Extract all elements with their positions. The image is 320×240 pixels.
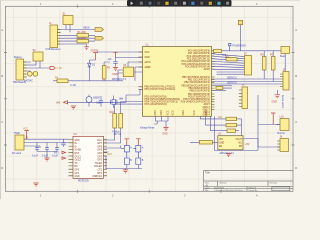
resistor R9 bbox=[190, 141, 218, 145]
svg-text:RTS: RTS bbox=[97, 173, 102, 175]
svg-text:VIN: VIN bbox=[56, 102, 60, 105]
wire reg-in bbox=[104, 58, 142, 81]
svg-text:CTS: CTS bbox=[97, 170, 102, 172]
svg-text:Revision: Revision bbox=[270, 182, 278, 184]
svg-text:MIC5219-3.3: MIC5219-3.3 bbox=[112, 78, 126, 81]
diode D2 bbox=[88, 60, 96, 81]
wires MCU to J5 bbox=[212, 53, 245, 74]
svg-text:R1 22R: R1 22R bbox=[78, 31, 86, 34]
svg-text:POWER5V0: POWER5V0 bbox=[233, 45, 247, 48]
svg-text:PB6 (PCINT6/XTAL1/TOSC1): PB6 (PCINT6/XTAL1/TOSC1) bbox=[145, 86, 176, 89]
svg-text:A: A bbox=[1, 28, 3, 32]
port P1 bbox=[95, 28, 104, 32]
wire XTAL2 bbox=[115, 103, 143, 105]
wire D+ bbox=[61, 37, 96, 39]
wire 5V loop bbox=[215, 139, 259, 151]
ground J6 bbox=[272, 90, 281, 104]
svg-text:RST: RST bbox=[75, 153, 80, 155]
wire AVCC bbox=[97, 51, 143, 53]
frame zone numbers bbox=[1, 2, 297, 198]
ground bottom-left bbox=[33, 183, 38, 186]
net label 1M1 bbox=[107, 153, 112, 156]
resistor R3 bbox=[102, 62, 110, 81]
MCU U1 bbox=[139, 43, 215, 116]
ground near C7 bbox=[112, 68, 118, 76]
connector J7 bbox=[239, 84, 248, 108]
wire vcc rail bbox=[24, 139, 69, 148]
resistor R10 bbox=[104, 104, 117, 140]
wires MCU to J6 bbox=[212, 79, 281, 84]
connector J8 bbox=[277, 136, 289, 152]
transistor Q1 bbox=[121, 145, 133, 152]
crystal Y1 bbox=[63, 13, 74, 33]
svg-text:PD6 (AIN0/OC0A/PCINT22): PD6 (AIN0/OC0A/PCINT22) bbox=[181, 101, 210, 104]
connector J6 bbox=[280, 69, 289, 109]
svg-text:GP0: GP0 bbox=[75, 170, 80, 172]
off-sheet port PWR bbox=[50, 67, 62, 70]
svg-text:ADC7: ADC7 bbox=[204, 103, 211, 106]
regulator U3 bbox=[218, 133, 243, 155]
capacitor C4 bbox=[61, 139, 65, 147]
svg-text:Voltage Meas: Voltage Meas bbox=[140, 127, 155, 130]
resistor R4 bbox=[55, 76, 76, 87]
svg-text:R10: R10 bbox=[110, 111, 115, 114]
resistor R2 bbox=[61, 37, 96, 43]
wire D- bbox=[61, 34, 78, 36]
svg-text:VCC: VCC bbox=[173, 110, 175, 115]
diode D3 bbox=[27, 71, 33, 76]
svg-text:VIN: VIN bbox=[219, 139, 223, 141]
svg-text:GP4: GP4 bbox=[97, 153, 102, 155]
svg-text:Servo select: Servo select bbox=[281, 95, 284, 108]
ground opto bus bbox=[123, 169, 128, 173]
svg-text:+5V: +5V bbox=[245, 143, 250, 146]
svg-text:R2 22R: R2 22R bbox=[78, 37, 86, 40]
svg-text:PC3 (ADC3/PCINT11): PC3 (ADC3/PCINT11) bbox=[187, 58, 210, 61]
wire XTAL1 bbox=[96, 102, 143, 105]
svg-text:PC2 (ADC2/PCINT10): PC2 (ADC2/PCINT10) bbox=[187, 55, 210, 58]
svg-text:S8050: S8050 bbox=[93, 97, 101, 100]
svg-text:VUSB: VUSB bbox=[75, 150, 82, 152]
svg-text:GP7: GP7 bbox=[97, 143, 102, 145]
svg-text:RX: RX bbox=[75, 166, 79, 168]
svg-text:C: C bbox=[295, 120, 297, 124]
ground U3 bbox=[226, 154, 231, 157]
canvas top edge bbox=[0, 0, 300, 1]
port P2 bbox=[95, 36, 104, 40]
transistor Q4 bbox=[136, 152, 144, 165]
svg-text:0.1uF: 0.1uF bbox=[42, 155, 49, 158]
svg-text:C-06: C-06 bbox=[57, 67, 63, 70]
svg-text:Number: Number bbox=[220, 182, 227, 184]
power flag buzzer bbox=[271, 113, 275, 125]
svg-text:MCP2200: MCP2200 bbox=[78, 179, 89, 182]
svg-text:OSC2: OSC2 bbox=[75, 160, 82, 162]
svg-text:EN: EN bbox=[219, 146, 223, 148]
svg-text:AREF: AREF bbox=[145, 66, 152, 69]
svg-text:VOUT: VOUT bbox=[235, 139, 242, 141]
resistor R15 bbox=[215, 86, 233, 91]
diode D4 bbox=[24, 71, 38, 82]
sheet background bbox=[0, 0, 300, 199]
svg-text:C:\Users\sch\Mainboard.SchDoc: C:\Users\sch\Mainboard.SchDoc bbox=[214, 190, 243, 192]
svg-text:VCC: VCC bbox=[23, 128, 28, 131]
svg-text:C-1R: C-1R bbox=[70, 84, 76, 87]
svg-text:VCC: VCC bbox=[194, 110, 196, 115]
svg-text:C: C bbox=[1, 120, 3, 124]
svg-text:File:: File: bbox=[205, 190, 209, 192]
capacitor C7 bbox=[108, 58, 118, 67]
svg-text:VCC: VCC bbox=[145, 52, 150, 54]
svg-text:PD7 (AIN1/PCINT23): PD7 (AIN1/PCINT23) bbox=[145, 103, 167, 106]
net label SERVO2 bbox=[227, 81, 237, 84]
svg-text:NC: NC bbox=[238, 142, 242, 144]
power port VCC jack bbox=[23, 128, 29, 140]
svg-text:PC4 (ADC4/SDA/PCINT12): PC4 (ADC4/SDA/PCINT12) bbox=[181, 60, 210, 63]
svg-text:VBUS: VBUS bbox=[83, 27, 90, 30]
switch S2 bbox=[33, 49, 44, 68]
svg-text:GND: GND bbox=[272, 101, 278, 104]
svg-text:PWR: PWR bbox=[14, 132, 20, 135]
resistor R14 bbox=[227, 129, 239, 132]
power flag VBUS2 bbox=[113, 52, 117, 57]
svg-text:PB2 (SS/OC1B/PCINT2): PB2 (SS/OC1B/PCINT2) bbox=[184, 82, 210, 84]
svg-text:PC0 (ADC0/PCINT8): PC0 (ADC0/PCINT8) bbox=[188, 50, 210, 53]
svg-text:1uF: 1uF bbox=[108, 58, 113, 61]
wire VBUS bbox=[61, 27, 96, 30]
svg-text:VCC: VCC bbox=[168, 110, 170, 115]
svg-text:GND: GND bbox=[206, 110, 208, 115]
ground MCU bbox=[162, 128, 168, 136]
capacitor C3 bbox=[52, 143, 59, 158]
svg-text:A: A bbox=[295, 28, 297, 32]
title block bbox=[204, 171, 294, 192]
wire sense bbox=[68, 101, 127, 103]
svg-text:BAT54C: BAT54C bbox=[24, 79, 33, 82]
svg-text:1M1: 1M1 bbox=[107, 153, 112, 156]
net label Voltage Meas bbox=[126, 89, 157, 129]
svg-text:PC5 (ADC5/SCL/PCINT13): PC5 (ADC5/SCL/PCINT13) bbox=[181, 63, 210, 66]
fuse F1 bbox=[212, 49, 282, 52]
resistor R5 bbox=[226, 55, 238, 61]
svg-text:TX: TX bbox=[75, 163, 78, 165]
svg-text:B: B bbox=[1, 74, 3, 78]
power flag F2 bbox=[238, 20, 242, 51]
connector J5 bbox=[244, 53, 252, 75]
resistor R1 bbox=[77, 31, 95, 37]
svg-text:OSC1: OSC1 bbox=[75, 156, 82, 158]
capacitor C2 bbox=[42, 143, 49, 158]
svg-text:5V0: 5V0 bbox=[222, 54, 227, 57]
toolbar overlay bbox=[127, 0, 232, 7]
svg-text:AVCC: AVCC bbox=[145, 61, 152, 64]
power port VDD33 bbox=[91, 50, 99, 60]
power socket symbol PWR5V bbox=[229, 43, 247, 50]
capacitor C5 bbox=[99, 96, 103, 107]
svg-text:PB5 (SCK/PCINT5): PB5 (SCK/PCINT5) bbox=[189, 91, 210, 93]
svg-text:GND: GND bbox=[155, 110, 157, 115]
svg-text:LS1: LS1 bbox=[280, 116, 285, 119]
sheet frame bbox=[4, 5, 295, 193]
net label USB5V bbox=[222, 54, 227, 57]
svg-text:FB: FB bbox=[239, 146, 242, 148]
resistor R11 bbox=[104, 102, 123, 144]
canvas left edge bbox=[0, 0, 1, 199]
power port Q2 bbox=[136, 139, 141, 146]
svg-text:GP1: GP1 bbox=[75, 173, 80, 175]
svg-text:GP2: GP2 bbox=[97, 160, 102, 162]
svg-text:GP3: GP3 bbox=[97, 156, 102, 158]
resistor R6 bbox=[261, 51, 267, 79]
wire servo bus bbox=[258, 95, 280, 147]
buzzer U6 bbox=[276, 116, 289, 136]
wire TDM2 bbox=[27, 62, 51, 68]
svg-text:VCC: VCC bbox=[97, 140, 102, 142]
svg-text:0.1uF: 0.1uF bbox=[32, 155, 39, 158]
MCU bottom pins bbox=[156, 116, 169, 127]
ground USB bbox=[84, 47, 89, 50]
connector J1 bbox=[46, 22, 61, 51]
svg-text:0.1uF: 0.1uF bbox=[52, 155, 59, 158]
transistor Q5 bbox=[86, 95, 101, 107]
svg-text:GP6: GP6 bbox=[97, 146, 102, 148]
svg-text:B: B bbox=[295, 74, 297, 78]
resistor R12 bbox=[218, 116, 242, 121]
svg-text:PC1 (ADC1/PCINT9): PC1 (ADC1/PCINT9) bbox=[188, 52, 210, 55]
svg-text:GND: GND bbox=[161, 110, 163, 115]
svg-text:PB7 (PCINT7/XTAL2/TOSC2): PB7 (PCINT7/XTAL2/TOSC2) bbox=[145, 88, 176, 91]
power port Q1 bbox=[125, 139, 130, 146]
port left-arrow VMEAS bbox=[56, 101, 68, 105]
svg-text:GP5: GP5 bbox=[97, 150, 102, 152]
svg-text:PB3 (MOSI/OC2A/PCINT3): PB3 (MOSI/OC2A/PCINT3) bbox=[181, 84, 210, 87]
transistor Q2 bbox=[133, 145, 144, 152]
resistor R7 bbox=[270, 51, 275, 82]
capacitor C1 bbox=[32, 143, 39, 158]
connector J3 bbox=[12, 132, 28, 155]
svg-text:DC Jack: DC Jack bbox=[12, 152, 22, 155]
net label SERVO1 bbox=[227, 76, 237, 79]
port RST bbox=[54, 151, 66, 159]
svg-text:VDD: VDD bbox=[75, 140, 80, 142]
wire GND row bbox=[61, 44, 87, 47]
ferrite bead FB1 bbox=[280, 47, 290, 72]
svg-text:ADC6: ADC6 bbox=[204, 68, 211, 71]
svg-text:GND: GND bbox=[183, 110, 185, 115]
svg-text:TXLED: TXLED bbox=[94, 163, 102, 165]
svg-text:D: D bbox=[295, 166, 297, 170]
resistor R13 bbox=[226, 119, 242, 137]
svg-text:R12: R12 bbox=[218, 116, 223, 119]
wire TDM1 bbox=[27, 64, 37, 66]
svg-text:GND: GND bbox=[75, 176, 80, 178]
component SW3 bbox=[112, 62, 134, 81]
svg-text:16M: 16M bbox=[119, 97, 124, 100]
svg-text:PB1 (OC1A/PCINT1): PB1 (OC1A/PCINT1) bbox=[188, 78, 210, 81]
svg-text:D-: D- bbox=[75, 146, 78, 148]
wire ADC feeders bbox=[201, 116, 228, 150]
svg-text:USB Receiver: USB Receiver bbox=[46, 48, 61, 51]
svg-text:RXLED: RXLED bbox=[94, 166, 102, 168]
svg-text:D: D bbox=[1, 166, 3, 170]
svg-text:GND: GND bbox=[112, 73, 118, 76]
svg-text:GND: GND bbox=[219, 142, 224, 144]
transistor Q3 bbox=[124, 152, 132, 165]
svg-text:Drawn By:: Drawn By: bbox=[249, 190, 259, 192]
wire cap gnd bbox=[37, 152, 57, 159]
ground sense bbox=[71, 106, 76, 109]
wire main 3V3 bbox=[53, 80, 123, 82]
svg-text:Board+: Board+ bbox=[14, 56, 22, 59]
wire opto bus bbox=[104, 145, 143, 168]
connector J2 bbox=[13, 56, 27, 84]
ground caps bbox=[44, 158, 49, 161]
svg-text:Title: Title bbox=[205, 171, 210, 175]
crystal Y2 bbox=[111, 96, 124, 109]
svg-text:GND: GND bbox=[162, 132, 168, 135]
svg-text:GND: GND bbox=[145, 57, 150, 59]
svg-text:USBCFG: USBCFG bbox=[92, 176, 102, 178]
interface chip U4 bbox=[69, 133, 108, 182]
net label I2C bbox=[113, 131, 122, 137]
